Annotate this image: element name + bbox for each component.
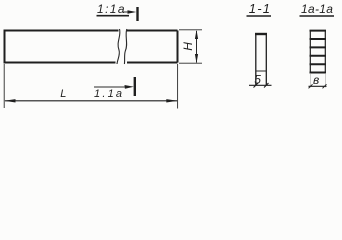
break line left — [117, 29, 120, 64]
section cut mark bottom — [134, 77, 136, 96]
svg-text:5: 5 — [254, 72, 261, 86]
dim line below в with oblique ticks — [309, 85, 327, 87]
dim H line with arrows — [196, 31, 198, 63]
svg-text:L: L — [60, 88, 66, 100]
svg-text:1.1a: 1.1a — [94, 88, 124, 100]
svg-text:1a-1a: 1a-1a — [301, 2, 333, 16]
section arrow bottom (shelf) — [94, 86, 127, 88]
dim H extension lines — [179, 30, 202, 63]
section cut mark top — [136, 7, 138, 21]
svg-text:в: в — [313, 73, 319, 87]
section arrow top — [124, 11, 134, 13]
svg-text:1-1: 1-1 — [249, 1, 271, 16]
extension lines for в dim — [310, 74, 325, 88]
section 1a-1a laminated stack — [310, 31, 327, 73]
svg-text:H: H — [181, 42, 195, 51]
svg-text:1:1a: 1:1a — [97, 2, 126, 16]
break line right — [124, 29, 126, 64]
bar outline (main view, left part) — [5, 31, 178, 63]
dim L extension lines — [4, 64, 177, 109]
inner line above s — [256, 70, 266, 72]
section 1-1 rectangle — [256, 34, 266, 85]
dim L line with arrows — [5, 100, 177, 102]
dim line bottom of 1-1 with oblique ticks — [249, 84, 272, 86]
